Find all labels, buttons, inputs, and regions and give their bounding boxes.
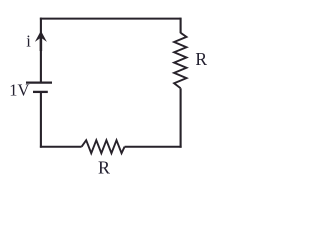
wire left lower (battery bottom lead) bbox=[40, 92, 42, 148]
wire bottom left segment bbox=[40, 146, 82, 148]
resistor R (right, vertical zigzag) bbox=[174, 33, 186, 89]
wire bottom right segment bbox=[125, 146, 182, 148]
current arrow i head bbox=[35, 31, 47, 42]
wire right upper (resistor R top lead) bbox=[180, 18, 182, 34]
wire left upper (battery top lead) bbox=[40, 18, 42, 83]
battery V1 negative plate (short) bbox=[33, 91, 48, 93]
wire top bbox=[40, 18, 181, 20]
wire right lower (resistor R bottom lead) bbox=[180, 88, 182, 147]
svg-text:R: R bbox=[195, 49, 207, 69]
current arrow i shaft bbox=[40, 34, 43, 51]
svg-text:1V: 1V bbox=[9, 81, 29, 100]
svg-text:i: i bbox=[26, 32, 31, 51]
svg-text:R: R bbox=[98, 158, 110, 178]
resistor R (bottom, horizontal zigzag) bbox=[82, 140, 125, 153]
battery V1 positive plate (long) bbox=[26, 81, 52, 83]
